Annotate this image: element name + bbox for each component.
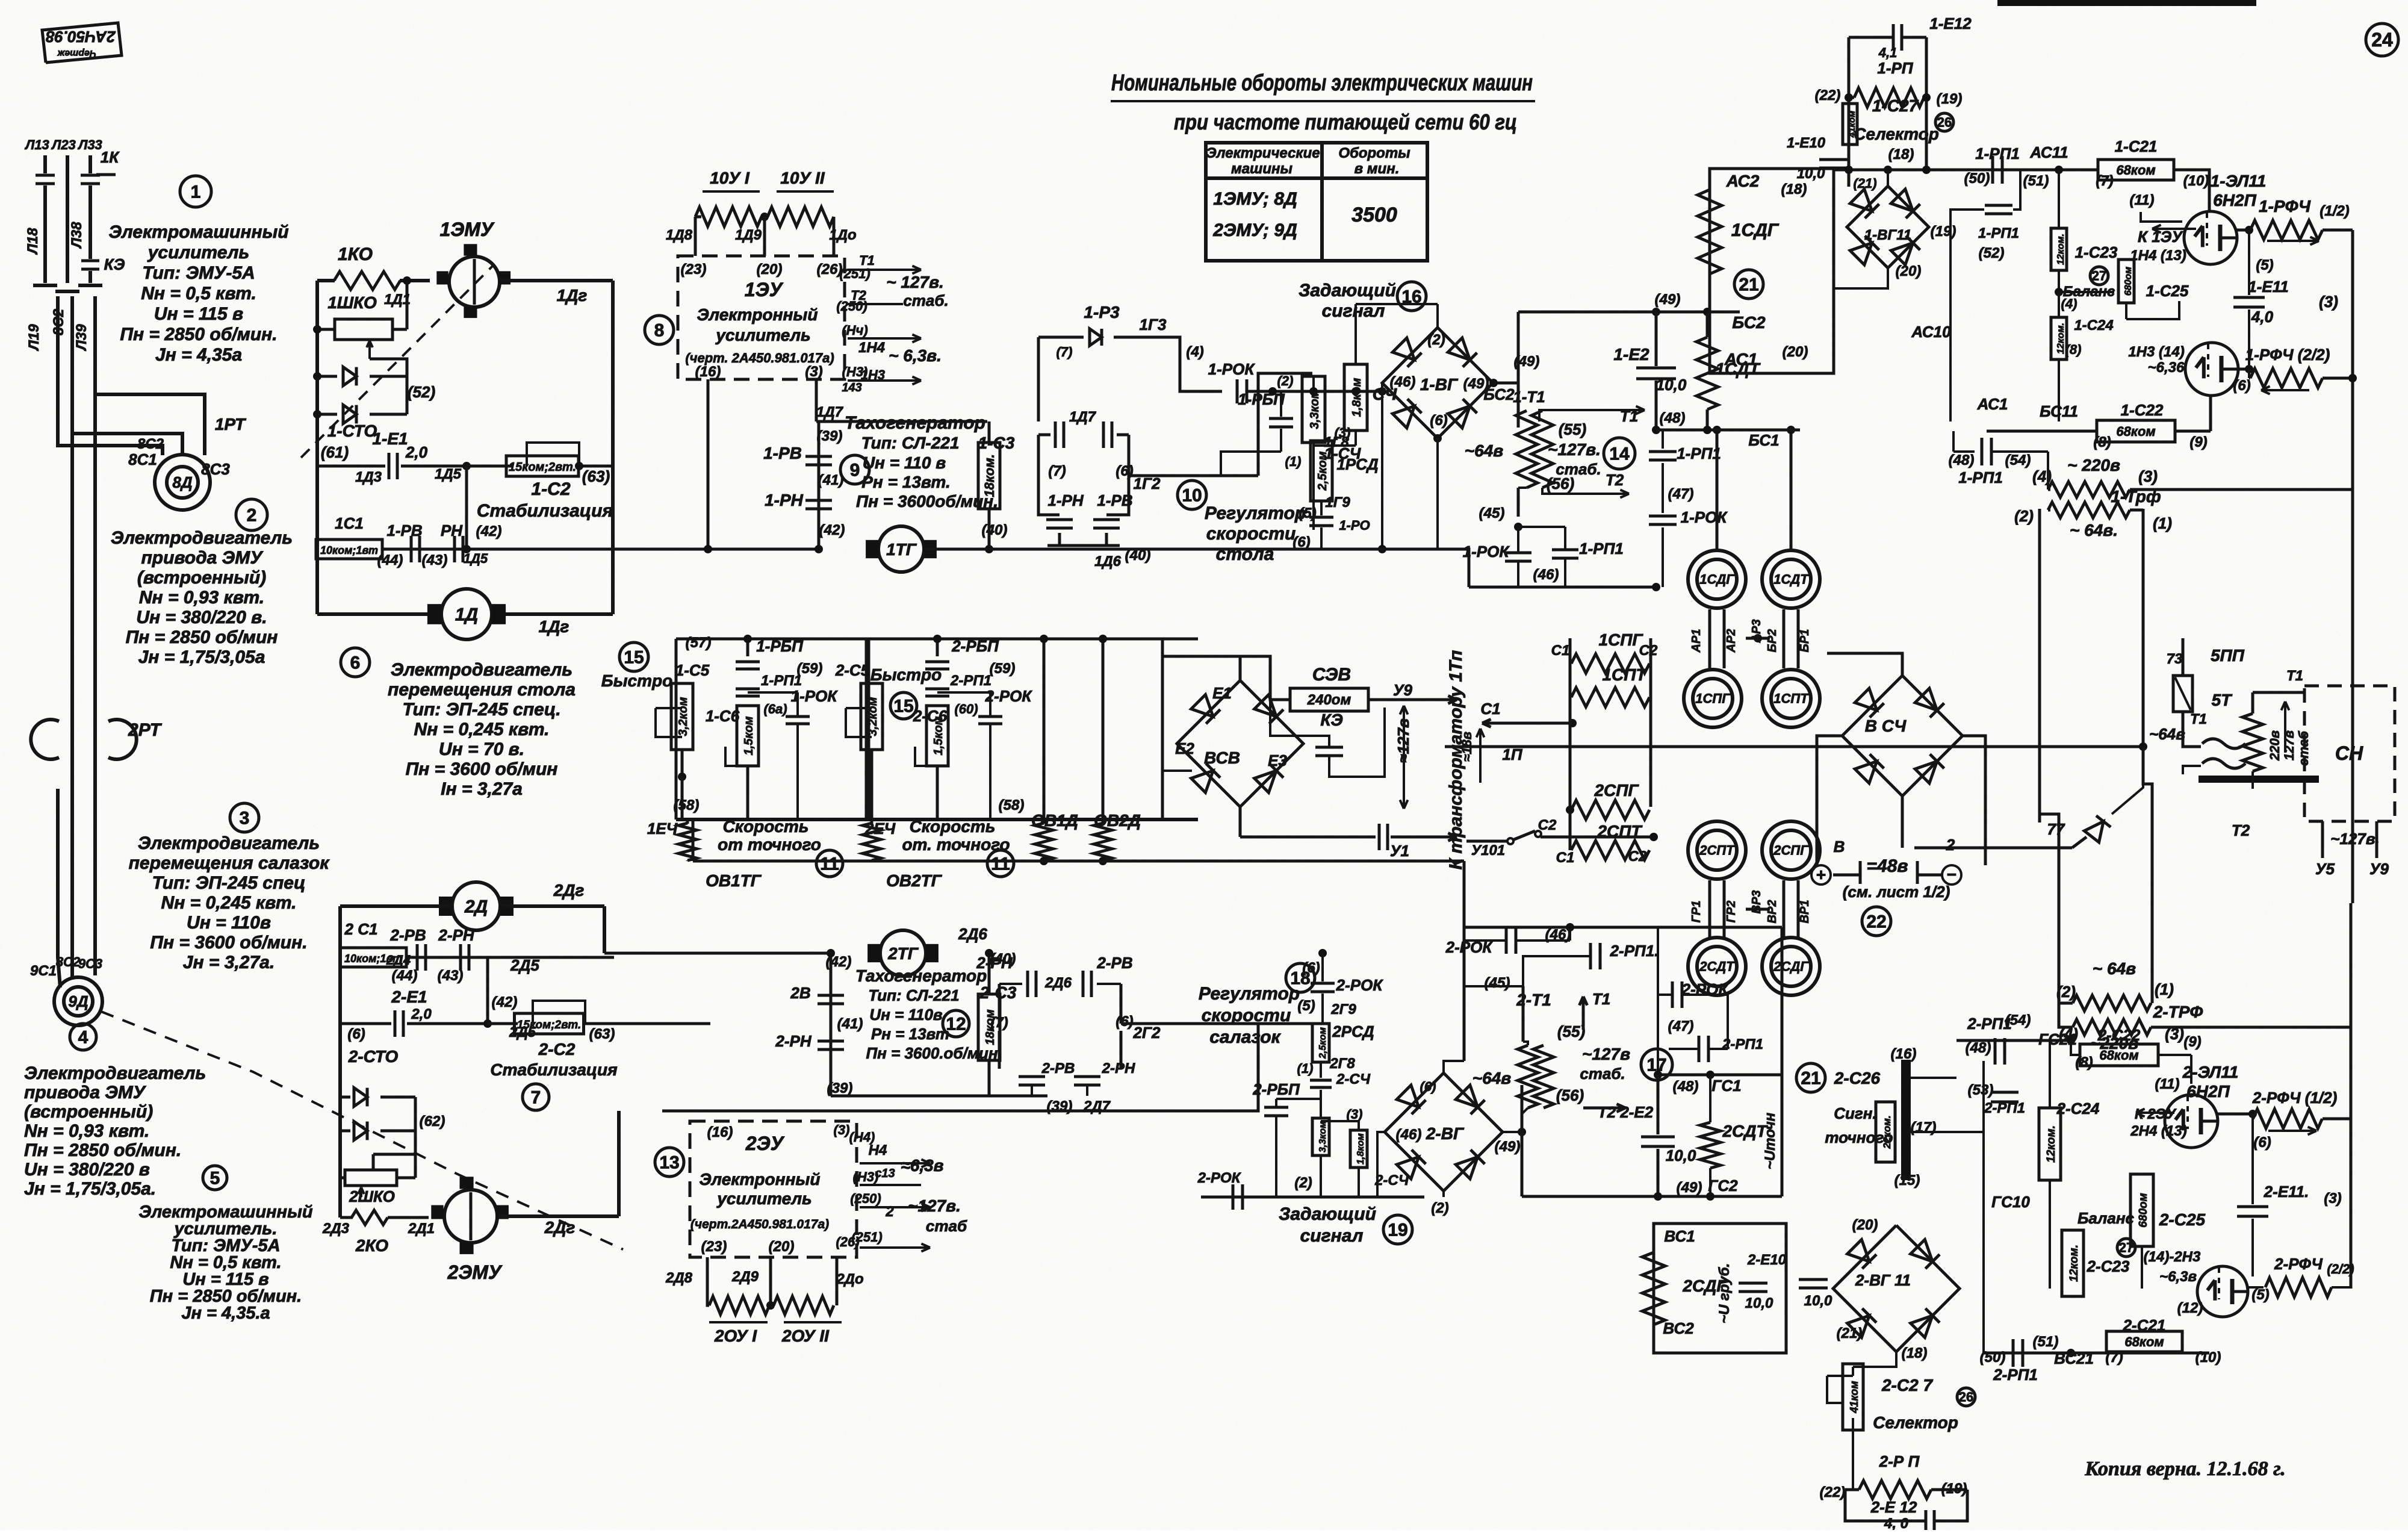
svg-text:1ШКО: 1ШКО bbox=[327, 293, 377, 312]
svg-text:ВС1: ВС1 bbox=[1664, 1227, 1695, 1245]
resistor 1CDG bbox=[1698, 190, 1722, 274]
svg-text:2-РП1: 2-РП1 bbox=[1722, 1036, 1763, 1053]
svg-text:1Н4: 1Н4 bbox=[858, 340, 885, 356]
svg-text:(2/2): (2/2) bbox=[2327, 1261, 2354, 1276]
svg-text:1-РО: 1-РО bbox=[1339, 518, 1370, 533]
svg-text:Л39: Л39 bbox=[73, 324, 90, 352]
2-T1 left vertical to bottom rail bbox=[1521, 1085, 1524, 1196]
svg-text:(19): (19) bbox=[1937, 91, 1963, 107]
svg-text:1СПГ: 1СПГ bbox=[1695, 691, 1731, 706]
svg-text:(250): (250) bbox=[850, 1191, 881, 1206]
svg-text:143: 143 bbox=[842, 381, 861, 394]
svg-text:2: 2 bbox=[247, 506, 257, 526]
wire 1G2 right bbox=[1129, 474, 1258, 477]
svg-text:(19): (19) bbox=[1931, 223, 1956, 240]
rail 48 BS1 bbox=[1656, 429, 1800, 432]
svg-text:2-РП1: 2-РП1 bbox=[1984, 1100, 2025, 1116]
svg-text:1-Е10: 1-Е10 bbox=[1787, 135, 1826, 151]
svg-text:Тип: СЛ-221: Тип: СЛ-221 bbox=[868, 986, 959, 1004]
scan artifact black strip top edge bbox=[1997, 0, 2256, 6]
tube 2 lower bbox=[2197, 1266, 2248, 1317]
wires into motor 9D bbox=[70, 789, 74, 980]
svg-text:(20): (20) bbox=[1896, 263, 1922, 279]
svg-text:Тахогенератор: Тахогенератор bbox=[855, 966, 987, 985]
svg-text:21: 21 bbox=[1739, 275, 1758, 295]
svg-text:(6): (6) bbox=[1302, 960, 1320, 976]
svg-text:(4): (4) bbox=[2061, 296, 2078, 311]
contact 1K bbox=[96, 173, 116, 176]
svg-text:1-РБП: 1-РБП bbox=[756, 637, 804, 655]
wire 2TG (39) down to 2EU bbox=[763, 1096, 764, 1121]
svg-text:2ЭМУ: 2ЭМУ bbox=[447, 1261, 502, 1283]
svg-text:(50): (50) bbox=[1964, 170, 1990, 187]
svg-text:77: 77 bbox=[2047, 820, 2065, 838]
svg-text:14: 14 bbox=[1609, 444, 1630, 464]
svg-text:(59): (59) bbox=[797, 661, 823, 677]
svg-text:1-РВ: 1-РВ bbox=[386, 521, 422, 540]
svg-text:2-РОК: 2-РОК bbox=[1197, 1170, 1242, 1186]
wire from pin 3 down to 1D7 node bbox=[815, 379, 818, 421]
svg-text:С2: С2 bbox=[1628, 848, 1647, 865]
svg-text:1-РП1: 1-РП1 bbox=[761, 673, 802, 689]
svg-text:(8): (8) bbox=[2093, 434, 2111, 450]
svg-text:1СПГ: 1СПГ bbox=[1598, 630, 1643, 649]
svg-text:(1): (1) bbox=[2153, 514, 2172, 532]
resistor 1,8kom bbox=[1344, 364, 1367, 431]
svg-text:(14)-2Н3: (14)-2Н3 bbox=[2144, 1249, 2201, 1265]
rail GS1 1785 bbox=[1658, 1074, 1782, 1077]
svg-text:2-ТРФ: 2-ТРФ bbox=[2153, 1003, 2203, 1021]
svg-text:(1): (1) bbox=[1285, 454, 1302, 469]
grid arrows tube2 bbox=[2136, 1112, 2174, 1114]
svg-text:2-Е 12: 2-Е 12 bbox=[1870, 1498, 1917, 1516]
svg-text:(10): (10) bbox=[2195, 1349, 2221, 1366]
svg-text:Номинальные обороты электричес: Номинальные обороты электрических машин bbox=[1111, 70, 1533, 96]
svg-text:ВР1: ВР1 bbox=[1798, 900, 1811, 924]
svg-text:(51): (51) bbox=[2023, 173, 2049, 189]
cap 1-RP1 (52) branch bbox=[2013, 170, 2020, 210]
svg-text:2Дг: 2Дг bbox=[544, 1218, 576, 1237]
svg-text:перемещения стола: перемещения стола bbox=[388, 680, 576, 700]
svg-text:(62): (62) bbox=[420, 1113, 445, 1130]
svg-text:73: 73 bbox=[2167, 651, 2183, 667]
svg-text:ГС1: ГС1 bbox=[1711, 1077, 1741, 1095]
rail jog down to block14 bottom bbox=[1438, 549, 1469, 587]
svg-text:1-ВГ: 1-ВГ bbox=[1420, 375, 1459, 394]
block 15 bottom rail bbox=[676, 818, 1198, 821]
cap (50)(51) 2-RP1 bbox=[2012, 1339, 2015, 1367]
svg-text:У5: У5 bbox=[2315, 860, 2335, 878]
svg-text:1-СТО: 1-СТО bbox=[327, 421, 377, 440]
svg-text:2-РБП: 2-РБП bbox=[951, 637, 999, 655]
svg-text:1СДГ: 1СДГ bbox=[1731, 220, 1780, 240]
wire 2EMU right bbox=[498, 1214, 619, 1218]
svg-text:1ТГ: 1ТГ bbox=[886, 540, 917, 559]
left vertical of regulator bbox=[1037, 337, 1040, 421]
svg-text:(15): (15) bbox=[1894, 1172, 1920, 1189]
motor 2SDT bbox=[1688, 938, 1746, 995]
2D loop box bbox=[340, 904, 451, 908]
svg-text:АР2: АР2 bbox=[1725, 629, 1738, 653]
SP stack rails bbox=[1570, 662, 1571, 665]
svg-text:2СПТ: 2СПТ bbox=[1699, 843, 1735, 858]
svg-text:10,0: 10,0 bbox=[1666, 1146, 1696, 1165]
svg-text:~127в.: ~127в. bbox=[1548, 440, 1601, 459]
svg-text:Jн = 3,27а.: Jн = 3,27а. bbox=[183, 953, 275, 972]
svg-text:2ОУ I: 2ОУ I bbox=[714, 1326, 757, 1345]
svg-text:220в: 220в bbox=[2267, 730, 2282, 761]
callout circle 15 left bbox=[619, 642, 648, 671]
svg-text:Тип: СЛ-221: Тип: СЛ-221 bbox=[861, 434, 960, 452]
svg-text:1-С27: 1-С27 bbox=[1872, 96, 1919, 115]
resistor 2CDT bbox=[1700, 1122, 1721, 1168]
svg-text:2До: 2До bbox=[836, 1271, 863, 1287]
svg-text:1Д7: 1Д7 bbox=[816, 404, 844, 420]
callout circle 22 bbox=[1862, 907, 1891, 936]
svg-text:2Д4: 2Д4 bbox=[386, 953, 411, 968]
svg-text:68ком: 68ком bbox=[2124, 1334, 2164, 1349]
svg-text:2-Р П: 2-Р П bbox=[1879, 1452, 1920, 1470]
svg-text:1-С24: 1-С24 bbox=[2074, 317, 2113, 334]
svg-text:2 С1: 2 С1 bbox=[344, 920, 378, 938]
svg-text:680ом: 680ом bbox=[2123, 267, 2133, 296]
motor 1SPT bbox=[1762, 670, 1820, 727]
svg-text:41ком: 41ком bbox=[1848, 1381, 1860, 1413]
svg-text:2СДТ: 2СДТ bbox=[1699, 959, 1735, 974]
svg-text:АС1: АС1 bbox=[1977, 395, 2008, 413]
rail 2Dg to 2TG bbox=[614, 957, 710, 958]
callout circle 19 bbox=[1383, 1215, 1412, 1244]
svg-text:9Д: 9Д bbox=[68, 992, 88, 1010]
svg-text:(19): (19) bbox=[1941, 1481, 1967, 1497]
svg-text:2-РН: 2-РН bbox=[775, 1032, 811, 1050]
motor 1SDT bbox=[1762, 550, 1820, 608]
svg-text:Т1: Т1 bbox=[2286, 668, 2303, 684]
svg-text:1РСД: 1РСД bbox=[1336, 455, 1379, 473]
svg-text:1-РОК: 1-РОК bbox=[1208, 360, 1256, 378]
resistor 680om ch2 bbox=[2130, 1174, 2153, 1246]
wire 2G2 right bbox=[1121, 1022, 1258, 1025]
svg-text:1-Е2: 1-Е2 bbox=[1613, 345, 1649, 364]
svg-text:ОВ2ТГ: ОВ2ТГ bbox=[886, 871, 943, 890]
right vertical rail (3) bbox=[2351, 230, 2354, 903]
svg-text:1Д8: 1Д8 bbox=[666, 227, 693, 243]
bridge bottom to AC1 bbox=[1834, 268, 1888, 288]
svg-text:(46): (46) bbox=[1396, 1127, 1422, 1143]
svg-text:3,2ком: 3,2ком bbox=[677, 697, 690, 736]
svg-text:2Г2: 2Г2 bbox=[1133, 1024, 1161, 1042]
svg-text:2-РБП: 2-РБП bbox=[1252, 1080, 1300, 1098]
svg-text:13: 13 bbox=[659, 1153, 679, 1173]
svg-text:машины: машины bbox=[1231, 161, 1293, 177]
wires 2C26 bbox=[1911, 1131, 1984, 1133]
svg-text:8: 8 bbox=[654, 321, 665, 341]
svg-text:(2): (2) bbox=[1294, 1175, 1312, 1191]
svg-text:2-РОК: 2-РОК bbox=[985, 687, 1033, 705]
bridge bottom vertical to rail bbox=[1433, 434, 1442, 443]
bridge 1-VG11 bbox=[1847, 186, 1929, 268]
bridge2 bottom wire bbox=[1442, 1191, 1445, 1197]
wire box left side bbox=[315, 281, 319, 614]
svg-text:Т1: Т1 bbox=[2190, 711, 2207, 727]
svg-text:1СДГ: 1СДГ bbox=[1699, 572, 1735, 587]
callout circle 10 bbox=[1178, 480, 1206, 509]
svg-text:2-РН: 2-РН bbox=[1102, 1060, 1135, 1077]
svg-text:(16): (16) bbox=[695, 364, 721, 380]
svg-text:2-С24: 2-С24 bbox=[2056, 1099, 2100, 1118]
jog of right vertical bbox=[2143, 747, 2179, 822]
svg-text:БР1: БР1 bbox=[1798, 629, 1811, 653]
wire third phase to motor 8D bbox=[56, 296, 60, 421]
svg-text:БР2: БР2 bbox=[1766, 629, 1779, 653]
svg-text:1,5ком: 1,5ком bbox=[742, 716, 756, 755]
svg-text:(11): (11) bbox=[2130, 192, 2155, 208]
svg-text:1,8ком: 1,8ком bbox=[1350, 378, 1364, 417]
svg-text:(21): (21) bbox=[1853, 176, 1876, 191]
svg-text:1-РП1: 1-РП1 bbox=[1978, 225, 2019, 241]
svg-text:Селектор: Селектор bbox=[1873, 1413, 1958, 1432]
svg-text:Т1: Т1 bbox=[1620, 407, 1638, 425]
svg-text:2В: 2В bbox=[790, 984, 810, 1002]
svg-text:ГС2: ГС2 bbox=[1708, 1177, 1738, 1195]
svg-text:(63): (63) bbox=[589, 1026, 615, 1042]
svg-text:Чертеж: Чертеж bbox=[57, 48, 97, 58]
motor 1SPG bbox=[1684, 670, 1742, 727]
svg-text:(7): (7) bbox=[1048, 463, 1066, 479]
current transformer 2RT bbox=[70, 720, 74, 789]
svg-text:68ком: 68ком bbox=[2116, 163, 2155, 178]
svg-text:1-РН: 1-РН bbox=[1047, 491, 1084, 509]
svg-text:Регулятор: Регулятор bbox=[1205, 503, 1306, 523]
diode 1-CTO upper bbox=[317, 375, 337, 378]
svg-text:(49): (49) bbox=[1655, 291, 1681, 308]
callout circle 21 ch1 bbox=[1734, 270, 1763, 299]
svg-text:1-С25: 1-С25 bbox=[2146, 282, 2189, 300]
svg-text:1-ЭЛ11: 1-ЭЛ11 bbox=[2211, 172, 2267, 190]
svg-text:2,5ком: 2,5ком bbox=[1316, 451, 1329, 491]
wires to 48v bbox=[1816, 801, 1819, 865]
wire ch2 vertical 3295 bbox=[1982, 1211, 1985, 1353]
svg-text:(6): (6) bbox=[347, 1026, 365, 1042]
svg-text:(48): (48) bbox=[1660, 410, 1686, 426]
cap 1-RP1 loop 46 bbox=[1518, 526, 1565, 528]
svg-text:12ком.: 12ком. bbox=[2045, 1125, 2058, 1163]
cap 1-RP1 on 47 branch bbox=[1662, 430, 1664, 449]
svg-text:АС10: АС10 bbox=[1911, 323, 1951, 341]
bridge 2-VG11 bbox=[1833, 1225, 1960, 1352]
svg-text:2-РФЧ: 2-РФЧ bbox=[2274, 1255, 2323, 1273]
svg-text:=48в: =48в bbox=[1866, 856, 1908, 876]
svg-text:Е3: Е3 bbox=[1268, 751, 1287, 770]
svg-text:8Д: 8Д bbox=[172, 473, 192, 491]
right rail of 1EMU loop bbox=[611, 281, 615, 614]
svg-text:(58): (58) bbox=[999, 797, 1025, 813]
svg-text:Рн = 13вт: Рн = 13вт bbox=[871, 1025, 949, 1043]
svg-text:11: 11 bbox=[820, 854, 839, 874]
wire BS11 row down from selector area bbox=[1953, 431, 1954, 476]
svg-text:(4): (4) bbox=[1186, 344, 1203, 360]
bridge2 right wire bbox=[1503, 1131, 1522, 1133]
svg-text:Электродвигатель: Электродвигатель bbox=[138, 833, 320, 853]
selector2 vertical wires bbox=[1852, 1418, 1854, 1490]
resistor 12kom lower ch1 bbox=[2058, 292, 2060, 318]
svg-text:ГС10: ГС10 bbox=[1991, 1193, 2030, 1211]
svg-text:~ 64в: ~ 64в bbox=[2093, 959, 2136, 978]
stamp box 2A450.98 bbox=[42, 23, 122, 63]
svg-text:(3): (3) bbox=[805, 364, 822, 380]
svg-text:(6): (6) bbox=[1420, 1079, 1436, 1094]
motor 9D bbox=[54, 977, 102, 1025]
dashed box 1EU bbox=[678, 256, 845, 379]
svg-text:Iн = 3,27а: Iн = 3,27а bbox=[441, 779, 523, 799]
svg-text:Тип: ЭМУ-5А: Тип: ЭМУ-5А bbox=[142, 263, 255, 283]
svg-text:Nн = 0,5 квт.: Nн = 0,5 квт. bbox=[141, 284, 256, 303]
svg-text:(53): (53) bbox=[1968, 1082, 1994, 1098]
block 15 top rail bbox=[676, 638, 1198, 641]
svg-text:Электронный: Электронный bbox=[700, 1170, 821, 1189]
svg-text:≈6,3в: ≈6,3в bbox=[901, 1156, 943, 1175]
svg-text:(20): (20) bbox=[757, 261, 783, 278]
svg-text:(23): (23) bbox=[681, 261, 707, 278]
svg-text:2-С23: 2-С23 bbox=[2087, 1257, 2130, 1275]
svg-text:Регулятор: Регулятор bbox=[1199, 984, 1300, 1004]
svg-text:(251): (251) bbox=[839, 266, 870, 281]
resistor 1RCD bbox=[1311, 441, 1332, 501]
svg-text:С2: С2 bbox=[1538, 817, 1557, 833]
svg-text:(9): (9) bbox=[2189, 434, 2207, 450]
svg-text:1ЭМУ; 8Д: 1ЭМУ; 8Д bbox=[1213, 189, 1297, 209]
branch node wires into 8D bbox=[72, 421, 182, 455]
svg-text:~6,3в: ~6,3в bbox=[2159, 1269, 2197, 1285]
svg-text:4: 4 bbox=[78, 1028, 88, 1048]
svg-text:2,0: 2,0 bbox=[405, 443, 428, 461]
svg-text:7: 7 bbox=[531, 1088, 541, 1108]
svg-text:1-Р3: 1-Р3 bbox=[1084, 303, 1120, 322]
svg-text:(42): (42) bbox=[476, 523, 502, 540]
svg-text:2-РВ: 2-РВ bbox=[1041, 1060, 1075, 1077]
svg-text:9: 9 bbox=[850, 461, 860, 480]
svg-text:КЭ: КЭ bbox=[1320, 711, 1342, 729]
svg-text:(46): (46) bbox=[1533, 567, 1559, 583]
svg-text:привода ЭМУ: привода ЭМУ bbox=[141, 548, 264, 568]
OB rail 1430 bbox=[693, 860, 1464, 863]
svg-text:9С1: 9С1 bbox=[30, 963, 57, 979]
svg-text:(5): (5) bbox=[1299, 505, 1316, 521]
svg-text:(47): (47) bbox=[1668, 486, 1694, 502]
svg-text:10: 10 bbox=[1182, 486, 1202, 506]
callout circle 2 bbox=[236, 499, 267, 530]
cluster2 link wires bbox=[1708, 880, 1711, 937]
svg-text:(22): (22) bbox=[1820, 1484, 1846, 1500]
svg-text:Т1: Т1 bbox=[1592, 990, 1610, 1008]
svg-text:10,0: 10,0 bbox=[1745, 1295, 1773, 1311]
resistor 680om ch1 bbox=[2059, 291, 2114, 293]
svg-text:(6): (6) bbox=[1116, 1013, 1133, 1030]
svg-text:Л18: Л18 bbox=[25, 228, 41, 255]
svg-text:(10): (10) bbox=[2183, 173, 2209, 189]
svg-text:БС11: БС11 bbox=[2040, 402, 2078, 420]
left vertical 2TG loop bbox=[830, 953, 833, 1096]
svg-text:Л23: Л23 bbox=[51, 137, 76, 152]
callout circle 26 bbox=[1935, 113, 1953, 131]
svg-text:стаб.: стаб. bbox=[903, 291, 948, 309]
svg-text:(45): (45) bbox=[1479, 505, 1505, 521]
selector resistor 41kom bbox=[1843, 104, 1857, 145]
svg-text:стаб: стаб bbox=[926, 1217, 967, 1235]
svg-text:Л19: Л19 bbox=[26, 324, 42, 352]
svg-text:(54): (54) bbox=[2005, 452, 2031, 468]
svg-text:Скорость: Скорость bbox=[723, 817, 809, 836]
svg-text:~ 64в.: ~ 64в. bbox=[2070, 521, 2118, 540]
svg-text:Uн = 115 в: Uн = 115 в bbox=[154, 304, 243, 324]
resistor OV2D bbox=[1102, 639, 1105, 824]
svg-text:2СПГ: 2СПГ bbox=[1773, 843, 1809, 858]
svg-text:У9: У9 bbox=[1393, 681, 1413, 699]
svg-text:8С1: 8С1 bbox=[128, 450, 157, 468]
svg-text:2-Е11.: 2-Е11. bbox=[2264, 1183, 2309, 1201]
svg-text:~ 127в.: ~ 127в. bbox=[886, 273, 944, 291]
svg-text:~127в: ~127в bbox=[1582, 1045, 1630, 1063]
svg-text:~ 220в: ~ 220в bbox=[2067, 456, 2120, 474]
svg-text:Пн = 3600 об/мин.: Пн = 3600 об/мин. bbox=[150, 933, 307, 953]
svg-text:(6): (6) bbox=[2233, 378, 2250, 394]
svg-text:ВС21: ВС21 bbox=[2054, 1349, 2094, 1367]
svg-text:Задающий: Задающий bbox=[1279, 1204, 1376, 1224]
svg-text:Jн = 4,35.а: Jн = 4,35.а bbox=[181, 1304, 270, 1323]
svg-text:10,0: 10,0 bbox=[1656, 376, 1687, 394]
wire to tube grid bbox=[2174, 170, 2209, 211]
svg-text:(52): (52) bbox=[1979, 245, 2005, 261]
svg-text:5ПП: 5ПП bbox=[2211, 646, 2245, 665]
svg-text:~127в.: ~127в. bbox=[908, 1196, 961, 1215]
svg-text:от точного: от точного bbox=[718, 835, 821, 854]
svg-text:К 2ЭУ: К 2ЭУ bbox=[2135, 1106, 2177, 1122]
svg-text:ОВ1ТГ: ОВ1ТГ bbox=[706, 871, 762, 890]
svg-text:(56): (56) bbox=[1547, 474, 1574, 493]
svg-text:Uн = 70 в.: Uн = 70 в. bbox=[439, 739, 524, 759]
cap 1-RP1 block15 bbox=[736, 688, 760, 691]
svg-text:1СДТ: 1СДТ bbox=[1773, 572, 1809, 587]
motor 2SDG bbox=[1762, 938, 1820, 995]
svg-text:Электромашинный: Электромашинный bbox=[108, 222, 288, 242]
svg-text:1СПТ: 1СПТ bbox=[1773, 691, 1809, 706]
svg-text:(2): (2) bbox=[1431, 1200, 1448, 1216]
grid feed from (11) bbox=[2141, 212, 2182, 222]
svg-text:(2): (2) bbox=[1427, 332, 1445, 348]
svg-text:127в: 127в bbox=[2282, 730, 2297, 760]
svg-text:(7): (7) bbox=[1057, 344, 1073, 359]
svg-text:АС2: АС2 bbox=[1726, 172, 1760, 190]
cluster link wires bbox=[1708, 609, 1711, 668]
svg-text:2-Т1: 2-Т1 bbox=[1516, 990, 1551, 1009]
svg-text:при частоте питающей сети 60 г: при частоте питающей сети 60 гц bbox=[1174, 110, 1517, 134]
motor 2SPT bbox=[1688, 821, 1746, 879]
left vertical of tacho loop bbox=[818, 421, 821, 549]
svg-text:ВСВ: ВСВ bbox=[1204, 748, 1240, 767]
svg-text:Обороты: Обороты bbox=[1338, 145, 1410, 161]
cap 2-RBP bbox=[925, 661, 949, 664]
svg-text:перемещения салазок: перемещения салазок bbox=[129, 853, 330, 873]
svg-text:(5): (5) bbox=[1297, 998, 1315, 1014]
rail through regulator bottom bbox=[1312, 548, 1438, 551]
callout circle 8 bbox=[645, 316, 674, 344]
bridge top feed bbox=[1436, 304, 1439, 328]
svg-text:1-РОК: 1-РОК bbox=[1681, 508, 1728, 526]
transformer secondary zigzag bbox=[2242, 714, 2263, 771]
cap 2-RP1 bbox=[925, 688, 949, 691]
svg-text:Быстро: Быстро bbox=[601, 671, 672, 690]
svg-text:ВР2: ВР2 bbox=[1766, 900, 1779, 924]
